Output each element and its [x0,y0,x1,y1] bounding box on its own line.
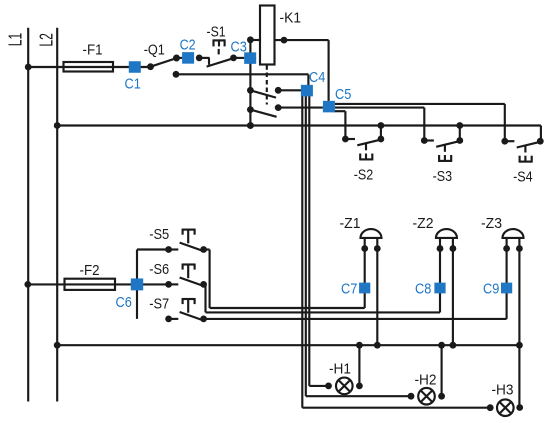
svg-text:-Z2: -Z2 [413,215,434,232]
svg-text:-H3: -H3 [492,382,514,399]
svg-text:C9: C9 [483,281,499,298]
svg-text:-Z3: -Z3 [481,215,502,232]
svg-text:-S6: -S6 [149,261,169,278]
svg-text:-S2: -S2 [354,167,374,184]
svg-text:-S3: -S3 [433,168,453,185]
svg-text:-H1: -H1 [329,361,351,378]
svg-text:C4: C4 [309,69,325,86]
svg-text:-Q1: -Q1 [144,41,165,58]
svg-text:L2: L2 [35,33,56,47]
svg-text:L1: L1 [5,33,26,47]
svg-text:-S4: -S4 [513,169,533,186]
svg-text:-S7: -S7 [149,295,169,312]
svg-text:-F2: -F2 [80,262,100,279]
svg-text:C5: C5 [335,86,351,103]
svg-text:C6: C6 [116,294,132,311]
svg-text:C3: C3 [231,39,247,56]
svg-text:C7: C7 [341,281,357,298]
svg-text:-F1: -F1 [83,41,103,58]
svg-text:C2: C2 [180,37,196,54]
svg-text:C8: C8 [415,281,431,298]
svg-text:-S5: -S5 [149,226,169,243]
svg-text:-S1: -S1 [207,24,226,41]
svg-text:C1: C1 [125,76,141,93]
svg-text:-Z1: -Z1 [340,215,361,232]
svg-text:-K1: -K1 [280,9,302,26]
svg-text:-H2: -H2 [415,371,437,388]
